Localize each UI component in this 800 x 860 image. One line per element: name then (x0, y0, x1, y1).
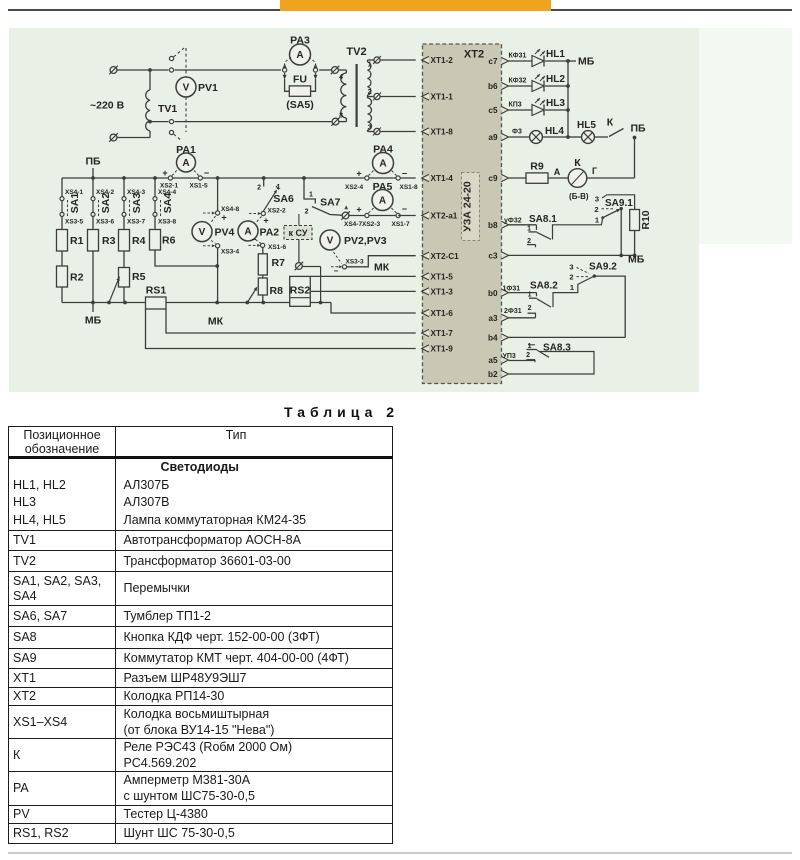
svg-text:SA8.2: SA8.2 (530, 280, 558, 291)
svg-text:А: А (379, 159, 386, 170)
svg-text:SA7: SA7 (320, 197, 341, 209)
svg-text:R8: R8 (270, 285, 284, 297)
svg-text:1: 1 (527, 225, 531, 232)
svg-text:МК: МК (208, 316, 224, 328)
svg-text:R6: R6 (162, 235, 176, 247)
svg-text:XS2-4: XS2-4 (345, 184, 363, 191)
svg-text:XS1-8: XS1-8 (400, 184, 418, 191)
svg-text:XT1-5: XT1-5 (431, 273, 454, 282)
svg-text:HL5: HL5 (577, 120, 596, 131)
svg-text:a3: a3 (488, 314, 498, 323)
svg-text:А: А (379, 196, 386, 207)
svg-text:XT1-9: XT1-9 (431, 345, 454, 354)
svg-text:R10: R10 (640, 210, 652, 229)
svg-text:HL1: HL1 (546, 49, 565, 60)
svg-text:R7: R7 (272, 257, 286, 269)
svg-text:SA4: SA4 (162, 193, 174, 214)
svg-text:b4: b4 (488, 334, 498, 343)
svg-text:к СУ: к СУ (289, 228, 308, 238)
svg-text:УЗА 24-20: УЗА 24-20 (462, 181, 474, 232)
svg-text:+: + (263, 216, 268, 226)
svg-text:3: 3 (368, 125, 372, 132)
svg-text:1: 1 (528, 292, 532, 299)
svg-text:V: V (199, 227, 206, 238)
svg-text:2: 2 (527, 238, 531, 245)
svg-text:XS2-2: XS2-2 (268, 208, 286, 215)
svg-text:R4: R4 (132, 235, 146, 247)
svg-text:XT1-3: XT1-3 (431, 288, 454, 297)
svg-text:КП3: КП3 (509, 102, 522, 109)
svg-text:А: А (296, 50, 303, 61)
svg-text:1: 1 (368, 62, 372, 69)
svg-text:МБ: МБ (578, 56, 595, 68)
svg-text:b0: b0 (488, 289, 498, 298)
svg-text:1: 1 (528, 343, 532, 350)
svg-text:XS1-5: XS1-5 (190, 183, 208, 190)
svg-text:XT1-8: XT1-8 (431, 128, 454, 137)
svg-text:−: − (402, 204, 407, 214)
svg-text:c3: c3 (488, 252, 498, 261)
svg-text:R2: R2 (70, 272, 84, 284)
svg-text:b2: b2 (488, 370, 498, 379)
svg-text:XT1-7: XT1-7 (431, 329, 454, 338)
svg-text:XT1-4: XT1-4 (431, 174, 454, 183)
svg-text:−: − (334, 267, 339, 276)
svg-text:SA8.1: SA8.1 (529, 214, 557, 225)
svg-text:3: 3 (595, 195, 599, 204)
svg-text:XS3-8: XS3-8 (158, 219, 176, 226)
svg-text:TV1: TV1 (158, 103, 177, 115)
svg-text:А: А (554, 167, 561, 177)
svg-text:А: А (244, 227, 251, 238)
svg-text:(SA5): (SA5) (286, 99, 313, 111)
svg-text:УП3: УП3 (503, 353, 516, 360)
svg-text:XS1-7: XS1-7 (392, 221, 410, 228)
svg-text:8: 8 (339, 113, 343, 120)
svg-text:−: − (204, 168, 209, 178)
svg-text:Ф3: Ф3 (512, 129, 522, 136)
svg-text:c9: c9 (488, 174, 498, 183)
svg-text:PV4: PV4 (215, 227, 235, 239)
svg-text:XT2-C1: XT2-C1 (431, 252, 460, 261)
svg-text:+: + (162, 168, 167, 178)
svg-text:XT2: XT2 (464, 49, 484, 61)
svg-text:2: 2 (257, 185, 261, 192)
svg-text:(Б-В): (Б-В) (569, 192, 589, 201)
svg-text:XS3-5: XS3-5 (65, 219, 83, 226)
svg-text:XS3-3: XS3-3 (346, 258, 364, 265)
svg-text:TV2: TV2 (346, 46, 366, 58)
svg-text:XT2-а1: XT2-а1 (431, 212, 458, 221)
svg-text:+: + (356, 168, 361, 178)
svg-text:4: 4 (339, 74, 343, 81)
svg-text:HL4: HL4 (545, 126, 564, 137)
svg-text:V: V (327, 236, 334, 247)
svg-text:R3: R3 (102, 235, 116, 247)
svg-text:3: 3 (569, 262, 573, 271)
svg-text:1: 1 (309, 192, 313, 199)
svg-text:SA1: SA1 (69, 193, 81, 214)
svg-text:2Ф31: 2Ф31 (504, 308, 522, 315)
svg-text:МБ: МБ (85, 315, 102, 327)
svg-text:FU: FU (293, 73, 307, 85)
svg-text:ПБ: ПБ (85, 156, 101, 168)
svg-text:МБ: МБ (628, 254, 645, 266)
svg-text:К: К (574, 157, 581, 169)
svg-text:XT1-2: XT1-2 (431, 56, 454, 65)
svg-text:PV1: PV1 (198, 82, 218, 94)
svg-text:КФ32: КФ32 (509, 78, 527, 85)
svg-text:XS4-7: XS4-7 (344, 221, 362, 228)
svg-text:V: V (183, 83, 190, 94)
svg-text:МК: МК (374, 261, 390, 273)
svg-text:c5: c5 (488, 106, 498, 115)
svg-text:XT1-1: XT1-1 (431, 93, 454, 102)
svg-text:уФ32: уФ32 (504, 218, 522, 225)
svg-text:c7: c7 (488, 57, 498, 66)
svg-text:XS3-4: XS3-4 (221, 249, 239, 256)
svg-text:К: К (607, 117, 614, 129)
svg-text:a9: a9 (488, 133, 498, 142)
svg-text:SA3: SA3 (131, 193, 143, 214)
svg-text:Г: Г (592, 166, 597, 176)
svg-text:−: − (402, 168, 407, 178)
svg-text:HL3: HL3 (546, 98, 565, 109)
svg-text:А: А (182, 158, 189, 169)
svg-text:a5: a5 (488, 356, 498, 365)
svg-text:1: 1 (595, 216, 599, 225)
svg-text:XS2-1: XS2-1 (160, 183, 178, 190)
svg-text:XT1-6: XT1-6 (431, 309, 454, 318)
svg-text:ПБ: ПБ (630, 123, 646, 135)
svg-text:SA9.2: SA9.2 (589, 262, 617, 273)
svg-text:2: 2 (594, 205, 598, 214)
svg-text:b6: b6 (488, 82, 498, 91)
svg-text:b8: b8 (488, 221, 498, 230)
svg-text:+: + (221, 213, 226, 223)
svg-text:1Ф31: 1Ф31 (503, 285, 521, 292)
svg-text:SA6: SA6 (273, 193, 294, 205)
svg-text:КФ31: КФ31 (509, 53, 527, 60)
svg-text:R1: R1 (70, 235, 84, 247)
svg-text:2: 2 (526, 352, 530, 359)
svg-text:SA9.1: SA9.1 (605, 198, 633, 209)
svg-text:PV2,PV3: PV2,PV3 (344, 235, 387, 247)
svg-text:HL2: HL2 (546, 74, 565, 85)
svg-text:~220 В: ~220 В (90, 100, 125, 112)
svg-text:SA2: SA2 (100, 193, 112, 214)
svg-text:2: 2 (368, 89, 372, 96)
svg-text:2: 2 (305, 209, 309, 216)
svg-text:R5: R5 (132, 271, 146, 283)
svg-text:RS2: RS2 (290, 285, 311, 297)
svg-text:XS3-6: XS3-6 (96, 219, 114, 226)
svg-text:+: + (356, 205, 361, 215)
svg-text:−: − (252, 235, 257, 244)
svg-text:XS1-6: XS1-6 (268, 244, 286, 251)
svg-text:2: 2 (569, 273, 573, 282)
svg-text:2: 2 (528, 305, 532, 312)
svg-text:RS1: RS1 (146, 285, 167, 297)
svg-text:XS3-7: XS3-7 (127, 219, 145, 226)
svg-text:1: 1 (570, 283, 574, 292)
svg-text:R9: R9 (530, 161, 544, 173)
svg-text:PA2: PA2 (260, 227, 280, 239)
svg-text:XS2-3: XS2-3 (362, 221, 380, 228)
